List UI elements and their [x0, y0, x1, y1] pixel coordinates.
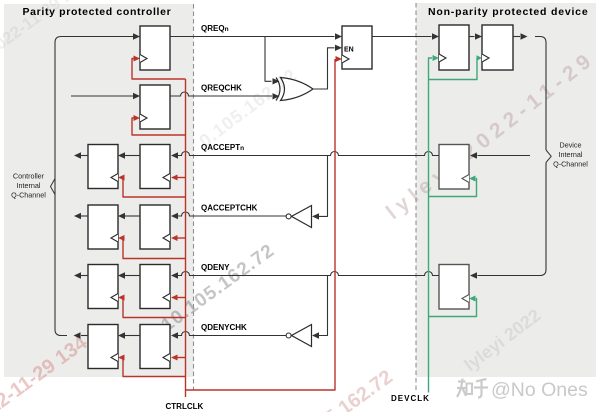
- svg-text:QACCEPTn: QACCEPTn: [201, 143, 244, 152]
- zhihu logo glyphs: [457, 379, 488, 398]
- device panel background: [416, 3, 596, 377]
- net CTRLCLK row6 left FF clock: [123, 358, 186, 377]
- wire QDENY from device interface: [478, 163, 547, 276]
- wire QDENYCHK between sync FFs: [125, 335, 141, 337]
- flip-flop device QACCEPTn capture: [439, 145, 469, 190]
- xor gate U1 parity check: [281, 78, 314, 101]
- svg-text:QREQCHK: QREQCHK: [201, 84, 242, 93]
- svg-text:DEVCLK: DEVCLK: [391, 394, 430, 403]
- flip-flop L6a QDENYCHK sync: [88, 325, 118, 369]
- svg-text:Internal: Internal: [17, 181, 41, 190]
- wire QDENY output to bus: [81, 275, 88, 277]
- flip-flop FF2 QREQCHK capture: [140, 85, 170, 129]
- net CTRLCLK FF1 clock: [132, 59, 186, 80]
- svg-text:Controller: Controller: [13, 172, 45, 181]
- svg-text:Parity protected controller: Parity protected controller: [23, 6, 172, 18]
- wire QREQn branch to XOR: [265, 37, 272, 82]
- svg-text:QDENY: QDENY: [201, 263, 230, 272]
- flip-flop L5a QDENY sync: [88, 265, 118, 309]
- flip-flop device QDENY capture: [439, 265, 469, 310]
- svg-text:Q-Channel: Q-Channel: [11, 191, 46, 200]
- wire QACCEPTCHK inverter to controller: [178, 212, 287, 216]
- device boundary dashed line: [415, 3, 417, 390]
- controller panel background: [4, 4, 194, 377]
- net CTRLCLK row3 right FF clock: [177, 177, 186, 179]
- svg-text:CTRLCLK: CTRLCLK: [166, 402, 204, 411]
- svg-text:EN: EN: [344, 47, 354, 54]
- flip-flop device sync B: [482, 25, 513, 70]
- wire QREQCHK FF2 to XOR: [170, 92, 272, 96]
- wire QACCEPTn device to controller: [178, 152, 440, 156]
- wire xor output to EN pin: [313, 48, 335, 89]
- net CTRLCLK row4 right FF clock: [177, 237, 186, 239]
- wire QACCEPTn between sync FFs: [125, 155, 141, 157]
- wire QREQn EN to device FF A: [372, 36, 432, 38]
- wire QACCEPTCHK output to bus: [81, 215, 88, 217]
- svg-text:05.162.72: 05.162.72: [312, 366, 397, 412]
- wire QDENY device to controller: [178, 272, 440, 276]
- svg-text:@No Ones: @No Ones: [491, 379, 588, 401]
- controller q-channel bus: [55, 37, 134, 336]
- wire device q-channel vertical: [535, 37, 546, 151]
- flip-flop L4a QACCEPTCHK sync: [88, 205, 118, 249]
- net CTRLCLK row6 right FF clock: [177, 357, 186, 359]
- wire QACCEPTn output to bus: [81, 155, 88, 157]
- svg-text:Q-Channel: Q-Channel: [553, 160, 588, 169]
- wire device FF A to FF B: [469, 36, 475, 38]
- net DEVCLK rail to FF A clock: [429, 58, 433, 393]
- net CTRLCLK bottom run to EN clock: [186, 59, 336, 390]
- wire QREQn bus to FF1: [133, 33, 140, 39]
- wire QREQn FF1 to EN flip-flop: [170, 36, 335, 38]
- wire QACCEPTn tap to inverter U2: [318, 156, 328, 217]
- flip-flop L4b QACCEPTCHK sync: [140, 205, 170, 249]
- flip-flop L3a QACCEPTn sync: [88, 145, 118, 189]
- flip-flop U-EN enable capture: [342, 26, 372, 69]
- inverter U2 QACCEPTCHK: [292, 206, 312, 228]
- net CTRLCLK FF2 clock: [132, 118, 186, 135]
- wire device FF B output: [513, 36, 520, 38]
- net CTRLCLK row4 left FF clock: [123, 238, 186, 259]
- device q-channel brace: [546, 150, 551, 163]
- wire QDENY between sync FFs: [125, 275, 141, 277]
- flip-flop L6b QDENYCHK sync: [140, 325, 170, 369]
- wire QACCEPTCHK between sync FFs: [125, 215, 141, 217]
- controller q-channel brace: [51, 179, 56, 195]
- svg-text:Device: Device: [560, 141, 582, 150]
- net DEVCLK FF B clock branch: [429, 58, 478, 80]
- inverter U3 QDENYCHK: [292, 325, 312, 347]
- net DEVCLK QDENY FF clock loop: [429, 299, 477, 317]
- net CTRLCLK row3 left FF clock: [123, 178, 186, 198]
- flip-flop FF1 QREQn capture: [140, 26, 170, 70]
- wire QREQCHK input: [71, 95, 134, 97]
- svg-text:QACCEPTCHK: QACCEPTCHK: [201, 204, 258, 213]
- svg-text:QDENYCHK: QDENYCHK: [201, 323, 247, 332]
- net CTRLCLK rail: [185, 79, 187, 397]
- net CTRLCLK row5 right FF clock: [177, 297, 186, 299]
- wire QACCEPTn from device interface: [478, 155, 531, 157]
- net DEVCLK QACCEPTn FF clock loop: [429, 179, 477, 197]
- svg-text:Internal: Internal: [559, 150, 583, 159]
- wire QDENY tap to inverter U3: [318, 276, 328, 336]
- svg-text:Non-parity protected device: Non-parity protected device: [428, 6, 588, 18]
- flip-flop L5b QDENY sync: [140, 265, 170, 309]
- flip-flop device sync A: [439, 25, 469, 70]
- wire QDENYCHK output to bus stub: [81, 335, 88, 337]
- controller boundary dashed line: [193, 4, 195, 390]
- wire QDENYCHK inverter to controller: [178, 332, 287, 336]
- net CTRLCLK row5 left FF clock: [123, 298, 186, 318]
- svg-text:QREQn: QREQn: [201, 24, 229, 33]
- flip-flop L3b QACCEPTn sync: [140, 145, 170, 189]
